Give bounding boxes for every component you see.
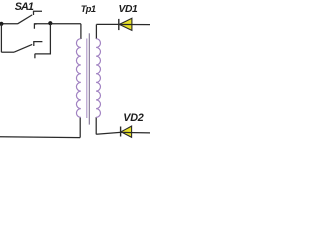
transformer Tp1 primary bottom lead <box>79 117 81 137</box>
wire: pole-2 output riser to junction <box>35 24 51 54</box>
wire: mains input top stub <box>0 23 18 25</box>
wire: top rail secondary to VD1 <box>96 23 118 25</box>
transformer Tp1 primary top lead <box>80 24 82 39</box>
diode VD2 triangle <box>121 126 132 137</box>
diode VD1 cathode bar <box>118 19 120 30</box>
svg-text:SA1: SA1 <box>15 1 34 13</box>
transformer Tp1 secondary top lead <box>95 24 97 39</box>
node: input junction dot <box>0 22 3 26</box>
svg-text:VD1: VD1 <box>119 4 139 15</box>
diode VD2 cathode bar <box>120 127 122 137</box>
switch SA1 pole 2 upper throw contact <box>34 42 43 46</box>
switch SA1 pole 2 input wire <box>1 51 14 53</box>
wire: bottom mains rail <box>0 136 80 139</box>
wire: VD1 output through triangle to right edge <box>119 23 150 25</box>
transformer Tp1 primary winding (9 arcs, bulge left) <box>76 39 80 118</box>
wire: VD2 output through triangle to right edge <box>121 131 150 134</box>
switch SA1 pole 1 upper throw contact <box>34 11 43 15</box>
switch SA1 pole 1 lower throw contact tick <box>34 24 36 29</box>
switch SA1 pole 2 lower contact tick <box>34 54 36 58</box>
svg-text:Тр1: Тр1 <box>81 4 96 14</box>
transformer Tp1 core line left <box>86 39 88 119</box>
node: pole outputs junction dot <box>48 21 52 25</box>
wire: left vertical linking pole inputs <box>0 24 2 53</box>
svg-text:VD2: VD2 <box>123 112 144 124</box>
switch SA1 pole 2 blade <box>14 44 32 52</box>
transformer Tp1 core line right <box>88 33 90 124</box>
transformer Tp1 secondary winding (9 arcs, bulge right) <box>96 39 100 118</box>
wire: secondary bottom to diode VD2 <box>96 132 120 134</box>
transformer Tp1 secondary bottom lead <box>95 117 97 134</box>
wire: switch output to transformer primary <box>34 23 81 25</box>
switch SA1 pole 1 blade <box>18 15 33 24</box>
diode VD1 triangle <box>119 18 132 30</box>
